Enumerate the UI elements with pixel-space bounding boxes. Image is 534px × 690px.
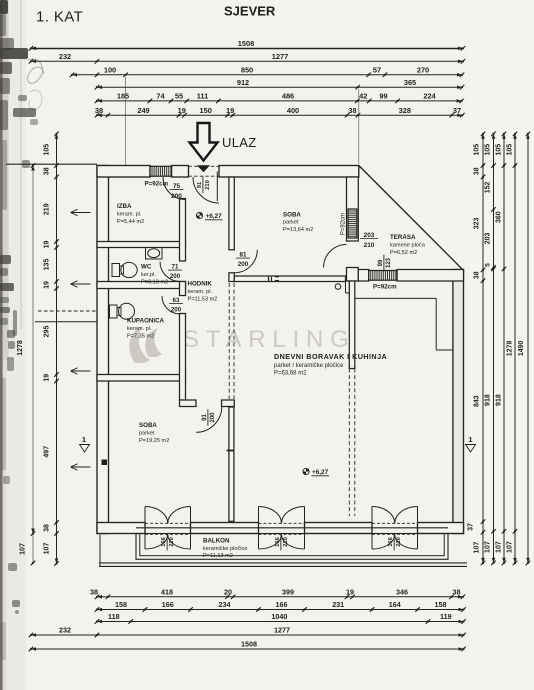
left direction arrows bbox=[71, 212, 91, 214]
svg-text:200: 200 bbox=[210, 412, 216, 423]
soba/terasa wall bbox=[347, 177, 359, 241]
hodnik right dashed open boundary bbox=[228, 283, 230, 399]
diagonal terasa edge bbox=[359, 166, 463, 270]
svg-text:1508: 1508 bbox=[238, 39, 254, 48]
svg-text:38: 38 bbox=[453, 587, 461, 596]
living room corner step bbox=[345, 282, 347, 294]
top dim row 232/1277 bbox=[31, 60, 463, 62]
svg-text:232: 232 bbox=[59, 626, 71, 635]
svg-text:1: 1 bbox=[468, 435, 472, 444]
svg-text:295: 295 bbox=[44, 326, 51, 338]
svg-text:107: 107 bbox=[44, 543, 51, 555]
svg-text:BALKON: BALKON bbox=[203, 538, 230, 545]
svg-text:200: 200 bbox=[170, 273, 181, 280]
terasa bottom / living top wall seg1 bbox=[358, 270, 368, 282]
bottom dim row 158-158 bbox=[97, 609, 464, 611]
bottom dim row 38-38 bbox=[97, 596, 463, 598]
svg-text:210: 210 bbox=[396, 537, 402, 547]
svg-text:19: 19 bbox=[44, 281, 51, 289]
kupaonica door 63/200 bbox=[162, 296, 180, 314]
svg-text:200: 200 bbox=[171, 307, 182, 314]
svg-text:20: 20 bbox=[224, 587, 232, 596]
STARLING watermark bbox=[129, 326, 355, 363]
hodnik left wall middle bbox=[180, 282, 186, 296]
svg-text:P=19,25 m2: P=19,25 m2 bbox=[139, 438, 169, 444]
svg-text:5: 5 bbox=[485, 263, 492, 267]
window soba/terasa P=92cm bbox=[348, 209, 357, 238]
svg-text:ULAZ: ULAZ bbox=[222, 135, 256, 150]
svg-text:418: 418 bbox=[161, 587, 173, 596]
svg-text:123: 123 bbox=[386, 257, 392, 268]
svg-text:SJEVER: SJEVER bbox=[224, 4, 276, 19]
level mark hodnik +6,27 bbox=[196, 212, 202, 218]
svg-text:1278: 1278 bbox=[507, 341, 514, 357]
svg-text:STARLING: STARLING bbox=[183, 326, 356, 353]
svg-text:P=13,64 m2: P=13,64 m2 bbox=[283, 227, 313, 233]
left dim col detail bbox=[56, 134, 58, 564]
svg-text:1: 1 bbox=[82, 435, 86, 444]
solid helper line left bbox=[35, 321, 97, 323]
svg-text:850: 850 bbox=[241, 65, 253, 74]
svg-text:P=92cm: P=92cm bbox=[341, 213, 347, 235]
svg-text:P=7,35 m2: P=7,35 m2 bbox=[127, 334, 154, 340]
svg-text:WC: WC bbox=[141, 264, 152, 271]
svg-text:38: 38 bbox=[473, 167, 480, 175]
svg-text:210: 210 bbox=[169, 537, 175, 547]
svg-text:166: 166 bbox=[388, 536, 394, 546]
svg-text:ker.pl.: ker.pl. bbox=[141, 272, 156, 278]
balcony french door 1 166/210 bbox=[144, 507, 146, 550]
svg-text:166: 166 bbox=[275, 536, 281, 546]
svg-text:38: 38 bbox=[44, 524, 51, 532]
wc sink bbox=[146, 248, 163, 260]
svg-text:parket: parket bbox=[139, 431, 155, 437]
lower terrace left corner tick bbox=[99, 535, 101, 566]
svg-text:63: 63 bbox=[173, 297, 180, 304]
hodnik right wall upper bbox=[229, 177, 234, 250]
svg-text:118: 118 bbox=[108, 612, 120, 621]
terasa bottom / living top wall seg2 bbox=[397, 270, 464, 282]
top dim row 185-224 bbox=[97, 100, 462, 102]
kupaonica bottom wall bbox=[97, 375, 186, 382]
svg-text:219: 219 bbox=[43, 203, 50, 215]
svg-text:P=92cm: P=92cm bbox=[373, 284, 397, 291]
top dim row 912/365 bbox=[97, 86, 462, 88]
svg-text:38: 38 bbox=[348, 106, 356, 115]
svg-text:166: 166 bbox=[276, 600, 288, 609]
balcony railing outer bbox=[136, 534, 448, 560]
svg-text:19: 19 bbox=[226, 106, 234, 115]
bottom wall segment 4 bbox=[418, 523, 464, 534]
svg-text:119: 119 bbox=[440, 612, 452, 621]
svg-text:166: 166 bbox=[162, 600, 174, 609]
svg-text:99: 99 bbox=[378, 259, 384, 266]
svg-text:1508: 1508 bbox=[241, 640, 257, 649]
svg-text:TERASA: TERASA bbox=[390, 234, 416, 241]
hodnik-soba2 door 91/200 bbox=[196, 407, 222, 433]
wall smudge mark bbox=[268, 277, 270, 281]
svg-text:keram. pl.: keram. pl. bbox=[127, 326, 152, 332]
svg-text:200: 200 bbox=[171, 193, 182, 200]
svg-text:38: 38 bbox=[43, 167, 50, 175]
hodnik bottom wall right piece bbox=[222, 400, 235, 407]
svg-text:365: 365 bbox=[404, 78, 416, 87]
svg-text:918: 918 bbox=[485, 394, 492, 406]
svg-text:399: 399 bbox=[282, 587, 294, 596]
svg-text:P=63,68 m2: P=63,68 m2 bbox=[274, 371, 307, 377]
balcony french door 2 166/210 bbox=[258, 507, 260, 550]
balcony threshold line bbox=[136, 527, 448, 529]
left dim col 1278 bbox=[32, 166, 34, 534]
top dim row 100/850/57/270 bbox=[72, 74, 462, 76]
svg-text:keram. pl.: keram. pl. bbox=[117, 212, 142, 218]
soba2/living wall bbox=[229, 407, 234, 521]
svg-text:105: 105 bbox=[507, 144, 514, 156]
outer wall top segment 3 bbox=[219, 166, 359, 178]
svg-text:19: 19 bbox=[44, 374, 51, 382]
svg-text:1278: 1278 bbox=[17, 340, 24, 356]
svg-text:918: 918 bbox=[496, 394, 503, 406]
level mark living +6,27 bbox=[303, 468, 309, 474]
svg-text:234: 234 bbox=[219, 600, 231, 609]
soba door 81/200 bbox=[234, 250, 257, 273]
bottom dim row 1508 bbox=[31, 648, 464, 650]
kupaonica toilet bbox=[110, 305, 118, 318]
svg-text:P=6,52 m2: P=6,52 m2 bbox=[390, 250, 417, 256]
kitchen stub wall solid bbox=[349, 281, 355, 369]
kitchen stub wall dashed bbox=[348, 369, 350, 517]
terasa door 203/210 arc bbox=[324, 245, 347, 268]
svg-text:19: 19 bbox=[178, 106, 186, 115]
svg-text:1277: 1277 bbox=[274, 626, 290, 635]
svg-text:328: 328 bbox=[399, 106, 411, 115]
hodnik left wall upper bbox=[180, 199, 186, 262]
svg-text:keram. pl.: keram. pl. bbox=[188, 289, 213, 295]
svg-text:keramičke pločice: keramičke pločice bbox=[203, 546, 247, 552]
svg-text:158: 158 bbox=[115, 600, 127, 609]
svg-text:210: 210 bbox=[364, 242, 375, 249]
svg-text:323: 323 bbox=[474, 217, 481, 229]
hodnik bottom wall left piece bbox=[180, 400, 197, 407]
svg-text:497: 497 bbox=[44, 446, 51, 458]
svg-text:1277: 1277 bbox=[272, 52, 288, 61]
svg-text:19: 19 bbox=[346, 587, 354, 596]
entrance threshold triangle bbox=[197, 165, 210, 172]
svg-text:57: 57 bbox=[373, 65, 381, 74]
svg-text:55: 55 bbox=[175, 92, 183, 101]
right dim col 2 bbox=[493, 134, 495, 563]
svg-text:81: 81 bbox=[240, 252, 247, 259]
witness line x126 bbox=[125, 77, 127, 165]
izba bottom wall bbox=[97, 242, 186, 248]
svg-text:99: 99 bbox=[379, 92, 387, 101]
wc bottom wall bbox=[97, 282, 186, 289]
svg-text:360: 360 bbox=[496, 211, 503, 223]
svg-text:+6,27: +6,27 bbox=[206, 213, 223, 220]
outer wall top segment 2 bbox=[172, 166, 189, 178]
hodnik left wall lower bbox=[180, 314, 186, 401]
svg-text:91: 91 bbox=[197, 181, 203, 188]
svg-text:kamene ploča: kamene ploča bbox=[390, 243, 426, 249]
svg-text:37: 37 bbox=[468, 523, 475, 531]
svg-text:105: 105 bbox=[44, 144, 51, 156]
wc door 71/200 bbox=[160, 262, 180, 282]
svg-text:IZBA: IZBA bbox=[117, 203, 132, 210]
svg-text:135: 135 bbox=[44, 259, 51, 271]
right dim col 1 bbox=[482, 134, 484, 563]
right dim col 3 bbox=[503, 134, 505, 563]
ULAZ arrow bbox=[190, 123, 218, 161]
kitchen counter bbox=[355, 297, 436, 299]
svg-text:SOBA: SOBA bbox=[283, 212, 301, 219]
svg-text:105: 105 bbox=[496, 144, 503, 156]
svg-text:158: 158 bbox=[435, 600, 447, 609]
window terasa-south P=92cm bbox=[369, 271, 397, 281]
svg-text:210: 210 bbox=[283, 537, 289, 547]
svg-text:P=3,13 m2: P=3,13 m2 bbox=[141, 280, 168, 286]
svg-text:38: 38 bbox=[473, 271, 480, 279]
svg-text:P=5,44 m2: P=5,44 m2 bbox=[117, 219, 144, 225]
svg-text:1490: 1490 bbox=[518, 340, 525, 356]
svg-text:74: 74 bbox=[156, 92, 165, 101]
soba/terasa wall lower piece bbox=[347, 268, 359, 282]
outer wall top segment 1 bbox=[97, 166, 150, 178]
right dim col 5 bbox=[527, 134, 529, 563]
svg-text:232: 232 bbox=[59, 52, 71, 61]
outer wall left bbox=[97, 166, 109, 534]
balcony french door 3 166/210 bbox=[371, 507, 373, 550]
svg-text:P=11,53 m2: P=11,53 m2 bbox=[188, 297, 218, 303]
svg-text:346: 346 bbox=[396, 587, 408, 596]
svg-text:150: 150 bbox=[200, 106, 212, 115]
balcony railing inner bbox=[140, 534, 444, 556]
svg-text:parket: parket bbox=[283, 220, 299, 226]
svg-text:200: 200 bbox=[238, 261, 249, 268]
top dim row 1508 bbox=[31, 47, 463, 49]
bottom wall segment 3 bbox=[305, 523, 373, 534]
top dim row 38-37 bbox=[97, 114, 462, 116]
bottom wall segment 2 bbox=[191, 523, 259, 534]
svg-text:249: 249 bbox=[137, 106, 149, 115]
svg-text:75: 75 bbox=[173, 183, 181, 190]
svg-text:105: 105 bbox=[485, 144, 492, 156]
svg-text:111: 111 bbox=[197, 92, 209, 101]
svg-text:107: 107 bbox=[474, 542, 481, 554]
window izba P=92cm bbox=[150, 166, 172, 176]
svg-text:HODNIK: HODNIK bbox=[188, 281, 213, 288]
column circle bbox=[335, 284, 341, 290]
scanner noise marks bbox=[0, 0, 3, 690]
svg-text:KUPAONICA: KUPAONICA bbox=[127, 318, 165, 325]
svg-text:parket / keramičke pločice: parket / keramičke pločice bbox=[274, 363, 344, 369]
dashed helper line left bbox=[38, 310, 97, 312]
svg-text:37: 37 bbox=[453, 106, 461, 115]
svg-text:843: 843 bbox=[474, 395, 481, 407]
soba top bottom wall bbox=[234, 276, 345, 282]
neighbour wall line extending left bbox=[6, 163, 97, 165]
right dim col 4 bbox=[514, 134, 516, 563]
svg-text:19: 19 bbox=[44, 241, 51, 249]
svg-text:166: 166 bbox=[161, 536, 167, 546]
svg-text:400: 400 bbox=[287, 106, 299, 115]
wc toilet bbox=[112, 264, 120, 277]
svg-text:107: 107 bbox=[20, 543, 27, 555]
svg-text:231: 231 bbox=[332, 600, 344, 609]
bottom dim row 118/1040/119 bbox=[97, 621, 464, 623]
svg-text:152: 152 bbox=[484, 182, 491, 194]
lower terrace long edge bbox=[99, 562, 467, 564]
svg-text:P=11,13 m2: P=11,13 m2 bbox=[203, 553, 233, 559]
svg-text:486: 486 bbox=[282, 92, 294, 101]
svg-text:224: 224 bbox=[423, 92, 436, 101]
svg-text:71: 71 bbox=[172, 264, 179, 271]
svg-text:91: 91 bbox=[202, 414, 208, 421]
entrance opening dashed bbox=[189, 165, 220, 167]
svg-text:270: 270 bbox=[417, 65, 429, 74]
svg-text:185: 185 bbox=[117, 92, 129, 101]
svg-text:107: 107 bbox=[496, 541, 503, 553]
bottom dim row 232/1277 bbox=[31, 634, 464, 636]
svg-text:38: 38 bbox=[90, 587, 98, 596]
svg-text:164: 164 bbox=[389, 600, 401, 609]
svg-text:107: 107 bbox=[485, 541, 492, 553]
izba door 75/200 bbox=[163, 177, 186, 200]
svg-text:210: 210 bbox=[205, 180, 211, 190]
svg-text:1040: 1040 bbox=[271, 612, 287, 621]
svg-text:100: 100 bbox=[104, 65, 116, 74]
svg-text:203: 203 bbox=[485, 232, 492, 244]
svg-text:SOBA: SOBA bbox=[139, 422, 157, 429]
svg-text:912: 912 bbox=[237, 78, 249, 87]
svg-text:DNEVNI BORAVAK I KUHINJA: DNEVNI BORAVAK I KUHINJA bbox=[274, 352, 387, 361]
svg-text:105: 105 bbox=[474, 144, 481, 156]
svg-text:1. KAT: 1. KAT bbox=[36, 9, 83, 26]
svg-text:+6,27: +6,27 bbox=[312, 469, 329, 476]
svg-text:203: 203 bbox=[364, 232, 375, 239]
witness line x359 bbox=[358, 90, 360, 165]
svg-text:38: 38 bbox=[95, 106, 103, 115]
outer wall right bbox=[453, 270, 464, 534]
svg-text:107: 107 bbox=[507, 541, 514, 553]
window label 99/123 bbox=[378, 255, 392, 272]
entrance door 91/210 leaf and arc bbox=[216, 172, 218, 202]
svg-text:42: 42 bbox=[359, 92, 367, 101]
bottom wall segment 1 bbox=[97, 523, 145, 534]
hodnik right wall piece below door bbox=[229, 273, 234, 282]
